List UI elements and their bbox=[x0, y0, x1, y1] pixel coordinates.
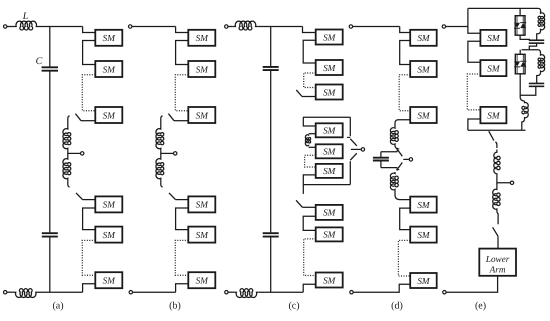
svg-text:SM: SM bbox=[196, 276, 210, 286]
wire feed elbow SM1 (d) bbox=[400, 27, 411, 33]
svg-text:SM: SM bbox=[323, 87, 337, 97]
wire cell bottom line (e) bbox=[468, 129, 526, 131]
svg-text:SM: SM bbox=[417, 110, 431, 120]
inductor a-bottom bbox=[14, 289, 39, 298]
terminal E-top bbox=[442, 25, 445, 28]
capacitor d-mid bbox=[373, 157, 389, 159]
inductor arm-lower (e) bbox=[493, 188, 500, 211]
wire top-e bbox=[446, 26, 468, 28]
submodule SM6 (b) bbox=[188, 272, 215, 288]
switch upper (c) bbox=[296, 90, 302, 97]
submodule SM6 (d) bbox=[410, 273, 437, 288]
inductor L bbox=[14, 21, 40, 30]
terminal C-top bbox=[225, 25, 228, 28]
svg-text:SM: SM bbox=[417, 64, 431, 74]
submodule SM2 (a) bbox=[95, 61, 122, 77]
dotted wire SM2-SM3 (c) bbox=[304, 73, 316, 88]
wire SM1-SM2 (e) bbox=[468, 41, 481, 62]
submodule SM3 (b) bbox=[188, 107, 215, 123]
svg-text:SM: SM bbox=[196, 230, 210, 240]
wire top-c bbox=[258, 26, 302, 28]
terminal A-bottom bbox=[3, 291, 6, 294]
wire SM1-SM2 (d) bbox=[400, 41, 411, 65]
terminal mid tap (a) bbox=[81, 152, 84, 155]
switch tap upper (c) bbox=[350, 139, 357, 146]
wire SM1-SM2 (a) bbox=[83, 41, 96, 65]
wire top-a to chain bbox=[39, 26, 83, 28]
tick upper (d) bbox=[396, 148, 399, 150]
svg-text:SM: SM bbox=[323, 208, 337, 218]
thyristor pair box T2 (e) bbox=[515, 54, 525, 74]
switch upper-arm (a) bbox=[75, 114, 81, 121]
svg-text:(b): (b) bbox=[169, 301, 181, 312]
svg-text:Arm: Arm bbox=[489, 264, 506, 274]
inductor arm-upper (e) bbox=[494, 150, 500, 177]
svg-text:SM: SM bbox=[487, 63, 501, 73]
switch lower-arm (a) bbox=[76, 193, 83, 200]
wire cap2 down join (e) bbox=[520, 86, 536, 95]
submodule SM6 (c) bbox=[316, 273, 343, 288]
wire feed elbow SM1 (e) bbox=[468, 27, 481, 34]
terminal mid tap (d) bbox=[409, 158, 412, 161]
svg-text:SM: SM bbox=[417, 33, 431, 43]
submodule SM4 (d) bbox=[410, 197, 437, 213]
wire thyristor1 top lead (e) bbox=[519, 8, 521, 15]
submodule SM5 (c) bbox=[316, 227, 343, 241]
svg-text:SM: SM bbox=[196, 64, 210, 74]
submodule SM2 (c) bbox=[316, 60, 343, 75]
svg-text:SM: SM bbox=[417, 230, 431, 240]
coupled inductor lower (b) bbox=[156, 157, 164, 180]
wire SM6 to bottom rail (c) bbox=[303, 284, 316, 292]
wire cap1 to cell2 (e) bbox=[529, 43, 536, 50]
wire left bus bottom (a) bbox=[49, 237, 51, 292]
capacitor a-lower bbox=[42, 232, 58, 234]
dotted wire SM5-SM6 (b) bbox=[175, 240, 188, 275]
wire coil3 to line (e) bbox=[522, 119, 525, 130]
inductor c-top bbox=[233, 21, 258, 30]
wire mid feed elbow (c) bbox=[303, 117, 315, 126]
wire mid bracket right lower (c) bbox=[349, 161, 351, 184]
svg-text:Lower: Lower bbox=[485, 254, 510, 264]
svg-text:SM: SM bbox=[323, 166, 337, 176]
wire mid bracket top (c) bbox=[303, 116, 350, 118]
submodule SM1 (d) bbox=[410, 30, 437, 46]
svg-text:SM: SM bbox=[323, 126, 337, 136]
dotted wire mid SM2-SM3 (c) bbox=[305, 155, 316, 167]
wire cell2 top node (e) bbox=[522, 50, 541, 54]
submodule SM2 (d) bbox=[410, 61, 437, 77]
wire thyristor1 bottom lead (e) bbox=[520, 35, 530, 39]
inductor c-bottom lead bbox=[228, 291, 234, 293]
submodule SM1 (a) bbox=[95, 30, 122, 46]
thyristor rails T1 (e) bbox=[516, 16, 518, 23]
dotted wire SM5-SM6 (c) bbox=[304, 239, 316, 276]
tick lower (d) bbox=[396, 169, 399, 171]
svg-text:SM: SM bbox=[323, 275, 337, 285]
coupled inductor upper (b) bbox=[156, 127, 164, 150]
capacitor c-upper bbox=[263, 66, 279, 68]
wire SM1-SM2 (b) bbox=[176, 41, 189, 65]
svg-text:L: L bbox=[22, 11, 29, 22]
switch lower (c) bbox=[296, 200, 302, 207]
capacitor c-lower bbox=[263, 232, 279, 234]
svg-text:SM: SM bbox=[487, 110, 501, 120]
wire bracket top (d) bbox=[381, 151, 397, 153]
switch tap upper (d) bbox=[398, 150, 402, 156]
svg-text:SM: SM bbox=[417, 200, 431, 210]
wire SM3 to coil (d) bbox=[395, 120, 410, 127]
wire mid SM3 to bracket bottom (c) bbox=[303, 175, 315, 185]
inductor cell-chain lower (e) bbox=[520, 95, 524, 101]
wire coil2 to cap2 (e) bbox=[537, 73, 541, 83]
svg-text:SM: SM bbox=[103, 33, 117, 43]
inductor L lead wire bbox=[7, 26, 14, 28]
terminal D-bottom bbox=[350, 291, 353, 294]
wire coil to switch (d) bbox=[395, 146, 398, 149]
capacitor C (a upper) bbox=[42, 66, 58, 68]
terminal D-top bbox=[349, 25, 352, 28]
submodule SM6 (a) bbox=[95, 272, 122, 288]
wire SM4 stub (a) bbox=[83, 199, 96, 201]
wire coil top lead (a) bbox=[68, 116, 70, 127]
wire feed elbow SM1 (a) bbox=[83, 27, 96, 33]
Lower Arm box (e) bbox=[479, 249, 516, 276]
terminal mid tap (b) bbox=[174, 152, 177, 155]
inductor c-bottom bbox=[235, 289, 259, 298]
tick upper (c) bbox=[347, 136, 350, 138]
wire bottom-a rail bbox=[38, 291, 83, 293]
dotted wire SM5-SM6 (a) bbox=[82, 240, 95, 275]
wire coil mid (b) bbox=[160, 150, 162, 157]
svg-text:SM: SM bbox=[103, 230, 117, 240]
inductor d-lower bbox=[390, 172, 398, 191]
submodule SM4 (b) bbox=[188, 196, 215, 212]
wire coil bottom lead (a) bbox=[68, 180, 70, 187]
wire thyristor2 top lead (e) bbox=[519, 50, 521, 55]
wire SM3 lower stub (c) bbox=[302, 96, 316, 98]
wire bottom-b rail bbox=[133, 291, 176, 293]
dotted wire SM2-SM3 (d) bbox=[399, 75, 410, 111]
inductor c-top lead bbox=[228, 26, 233, 28]
wire SM6 to bottom rail (d) bbox=[353, 284, 410, 292]
terminal mid tap (c) bbox=[361, 148, 364, 151]
submodule SM1 (c) bbox=[316, 30, 343, 45]
wire left bus mid (a) bbox=[49, 71, 51, 232]
wire coil mid (a) bbox=[67, 150, 69, 157]
svg-text:C: C bbox=[36, 56, 43, 67]
switch tap lower (d) bbox=[398, 163, 402, 169]
wire SM4 stub (b) bbox=[176, 199, 189, 201]
submodule SM4 (a) bbox=[95, 196, 122, 212]
terminal E-bottom bbox=[443, 291, 446, 294]
wire SM6 to bottom rail (b) bbox=[176, 284, 189, 292]
svg-text:SM: SM bbox=[103, 64, 117, 74]
svg-text:SM: SM bbox=[196, 33, 210, 43]
thyristor right (up) T1 (e) bbox=[520, 23, 526, 28]
wire bracket left lower (d) bbox=[380, 161, 382, 167]
submodule SM3 (a) bbox=[95, 107, 122, 123]
submodule SM5 (d) bbox=[410, 227, 437, 243]
submodule SM2 (b) bbox=[188, 61, 215, 77]
wire coil to SM4 (d) bbox=[395, 191, 410, 200]
svg-text:SM: SM bbox=[487, 33, 501, 43]
submodule SM1 (e) bbox=[480, 30, 506, 46]
wire bracket right joins (d) bbox=[396, 149, 398, 152]
submodule mid-SM1 (c) bbox=[316, 123, 343, 137]
wire top-d bbox=[353, 26, 400, 28]
wire thyristor2 bottom lead (e) bbox=[519, 74, 521, 96]
switch lower-arm (b) bbox=[169, 193, 176, 200]
wire SM4-SM5 (d) bbox=[400, 208, 411, 230]
wire SM1-SM2 (c) bbox=[303, 40, 316, 63]
wire SM4 stub (c) bbox=[302, 206, 315, 208]
submodule SM5 (b) bbox=[188, 227, 215, 243]
wire feed elbow SM1 (c) bbox=[303, 27, 316, 33]
svg-text:SM: SM bbox=[103, 200, 117, 210]
capacitor cell2 (e) bbox=[529, 82, 544, 84]
wire bracket left upper (d) bbox=[380, 152, 382, 157]
inductor a-bottom lead bbox=[7, 291, 14, 293]
thyristor pair box T1 (e) bbox=[515, 16, 525, 36]
wire center tap (a) bbox=[68, 152, 81, 154]
dotted wire SM2-SM3 (a) bbox=[82, 75, 95, 111]
wire coil5 bottom (e) bbox=[496, 183, 498, 188]
thyristor left (down) T2 (e) bbox=[514, 61, 520, 66]
submodule mid-SM2 (c) bbox=[316, 144, 343, 158]
dotted wire SM2-SM3 (e) bbox=[467, 74, 480, 110]
svg-text:(a): (a) bbox=[52, 301, 63, 312]
inductor d-upper bbox=[390, 127, 398, 146]
thyristor right (up) T2 (e) bbox=[520, 61, 526, 66]
submodule SM2 (e) bbox=[480, 60, 506, 76]
svg-text:(e): (e) bbox=[475, 301, 486, 312]
svg-text:SM: SM bbox=[103, 110, 117, 120]
svg-text:SM: SM bbox=[323, 147, 337, 157]
wire mid bracket bottom (c) bbox=[303, 184, 350, 186]
svg-text:(d): (d) bbox=[391, 301, 403, 312]
inductor cell1 (e) bbox=[538, 12, 545, 31]
wire Lower Arm to bottom rail (e) bbox=[446, 276, 497, 292]
wire coil to mid SM2 (c) bbox=[309, 146, 316, 148]
svg-text:SM: SM bbox=[323, 32, 337, 42]
wire mid bracket right upper (c) bbox=[349, 117, 351, 136]
terminal arm tap (e) bbox=[510, 181, 513, 184]
wire center tap (b) bbox=[161, 152, 174, 154]
wire coil top lead (b) bbox=[161, 116, 163, 127]
wire coil bottom lead (b) bbox=[161, 180, 163, 187]
coupled inductor lower (a) bbox=[63, 157, 71, 180]
submodule SM3 (e) bbox=[480, 107, 506, 123]
wire left bus bottom (c) bbox=[270, 237, 272, 292]
submodule SM3 (d) bbox=[410, 107, 437, 123]
wire SM3 lower stub (a) bbox=[81, 120, 95, 122]
switch upper-arm (b) bbox=[168, 114, 174, 121]
submodule SM3 (c) bbox=[316, 85, 343, 100]
submodule SM5 (a) bbox=[95, 227, 122, 243]
wire SM6 to bottom rail (a) bbox=[83, 284, 96, 292]
wire SM4-SM5 (b) bbox=[176, 208, 189, 230]
wire bracket bottom (d) bbox=[381, 167, 397, 169]
wire tap (d) bbox=[403, 158, 409, 160]
switch arm-bottom (e) bbox=[493, 227, 498, 236]
wire bus-e upper bbox=[467, 8, 469, 26]
dotted wire SM5-SM6 (d) bbox=[398, 240, 410, 276]
svg-text:SM: SM bbox=[196, 110, 210, 120]
wire to coil4 (e) bbox=[495, 142, 497, 148]
svg-text:SM: SM bbox=[323, 230, 337, 240]
terminal A-top bbox=[3, 25, 6, 28]
svg-text:(c): (c) bbox=[288, 301, 299, 312]
node left-bus top junction (a) bbox=[49, 27, 51, 68]
thyristor left (down) T1 (e) bbox=[514, 23, 520, 28]
wire left bus mid (c) bbox=[270, 71, 272, 233]
wire to Lower Arm box (e) bbox=[497, 236, 499, 248]
switch arm-top (e) bbox=[489, 131, 494, 140]
wire mid SM1 stub to coil (c) bbox=[309, 133, 316, 135]
coupled inductor upper (a) bbox=[63, 127, 71, 150]
wire coil1 to cap1 (e) bbox=[537, 31, 541, 40]
wire top line (e) bbox=[468, 8, 541, 12]
svg-text:SM: SM bbox=[417, 276, 431, 286]
svg-text:SM: SM bbox=[196, 200, 210, 210]
terminal C-bottom bbox=[225, 291, 228, 294]
wire left bus top (c) bbox=[270, 27, 272, 67]
thyristor rails T2 (e) bbox=[516, 54, 518, 61]
inductor cell2 (e) bbox=[538, 53, 545, 72]
dotted wire SM2-SM3 (b) bbox=[175, 75, 188, 111]
submodule SM1 (b) bbox=[188, 30, 215, 46]
switch tap lower (c) bbox=[350, 153, 357, 160]
wire SM3 to lower line (e) bbox=[468, 119, 481, 130]
wire bracket to switch (c) bbox=[302, 185, 304, 194]
wire SM3 lower stub (b) bbox=[174, 120, 188, 122]
capacitor cell1 (e) bbox=[529, 39, 544, 41]
wire arm tap (e) bbox=[497, 177, 510, 183]
inductor mid (c) bbox=[305, 135, 310, 146]
wire tap (c) bbox=[351, 148, 361, 150]
svg-text:SM: SM bbox=[103, 276, 117, 286]
svg-text:SM: SM bbox=[323, 63, 337, 73]
wire SM4-SM5 (a) bbox=[83, 208, 96, 230]
wire feed elbow SM1 (b) bbox=[176, 27, 189, 33]
terminal B-bottom bbox=[129, 291, 132, 294]
submodule mid-SM3 (c) bbox=[316, 164, 343, 178]
terminal B-top bbox=[129, 25, 132, 28]
submodule SM4 (c) bbox=[316, 205, 343, 220]
wire top-b bbox=[132, 26, 176, 28]
wire SM4-SM5 (c) bbox=[303, 216, 316, 230]
wire bottom-c rail bbox=[258, 291, 303, 293]
